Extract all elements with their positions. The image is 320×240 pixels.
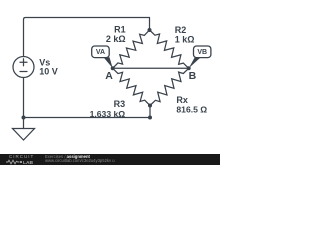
- node dot ground junction: [22, 116, 26, 120]
- voltage source plus: [20, 59, 27, 66]
- svg-text:B: B: [189, 70, 197, 82]
- svg-text:VA: VA: [96, 49, 105, 56]
- node dot bottom: [148, 104, 152, 108]
- voltage source minus: [20, 71, 27, 73]
- flag pointer VA: [104, 57, 113, 68]
- wire bottom rail: [24, 78, 151, 129]
- svg-text:1 kΩ: 1 kΩ: [175, 34, 195, 44]
- footer url line: [45, 158, 115, 163]
- node dot B: [187, 66, 191, 70]
- footer bar: [0, 154, 220, 166]
- svg-text:R1: R1: [114, 24, 126, 34]
- node dot top: [148, 28, 152, 32]
- svg-text:VB: VB: [197, 49, 207, 56]
- ground: [13, 129, 35, 141]
- resistor R2: [150, 30, 189, 68]
- voltage source V1 circle: [13, 57, 34, 78]
- resistor Rx: [150, 68, 189, 105]
- svg-text:816.5 Ω: 816.5 Ω: [176, 105, 207, 115]
- wire bridge A-B: [113, 67, 189, 69]
- node dot A: [111, 66, 115, 70]
- resistor R1: [113, 30, 150, 68]
- svg-text:A: A: [105, 70, 113, 82]
- svg-text:1.633 kΩ: 1.633 kΩ: [90, 109, 126, 119]
- svg-text:Rx: Rx: [176, 95, 188, 105]
- svg-text:R3: R3: [114, 99, 126, 109]
- node dot bottom corner: [148, 116, 152, 120]
- wire top rail: [24, 18, 150, 57]
- resistor R3: [113, 68, 150, 105]
- svg-text:2 kΩ: 2 kΩ: [106, 34, 126, 44]
- footer logo CIRCUIT: [9, 154, 34, 159]
- svg-text:R2: R2: [175, 25, 187, 35]
- svg-text:10 V: 10 V: [39, 67, 58, 77]
- flag pointer VB: [189, 57, 201, 68]
- flag box VB: [194, 46, 211, 58]
- flag box VA: [92, 46, 110, 58]
- footer logo LAB: [6, 159, 36, 165]
- footer title line: [45, 154, 90, 159]
- svg-text:LAB: LAB: [23, 160, 34, 165]
